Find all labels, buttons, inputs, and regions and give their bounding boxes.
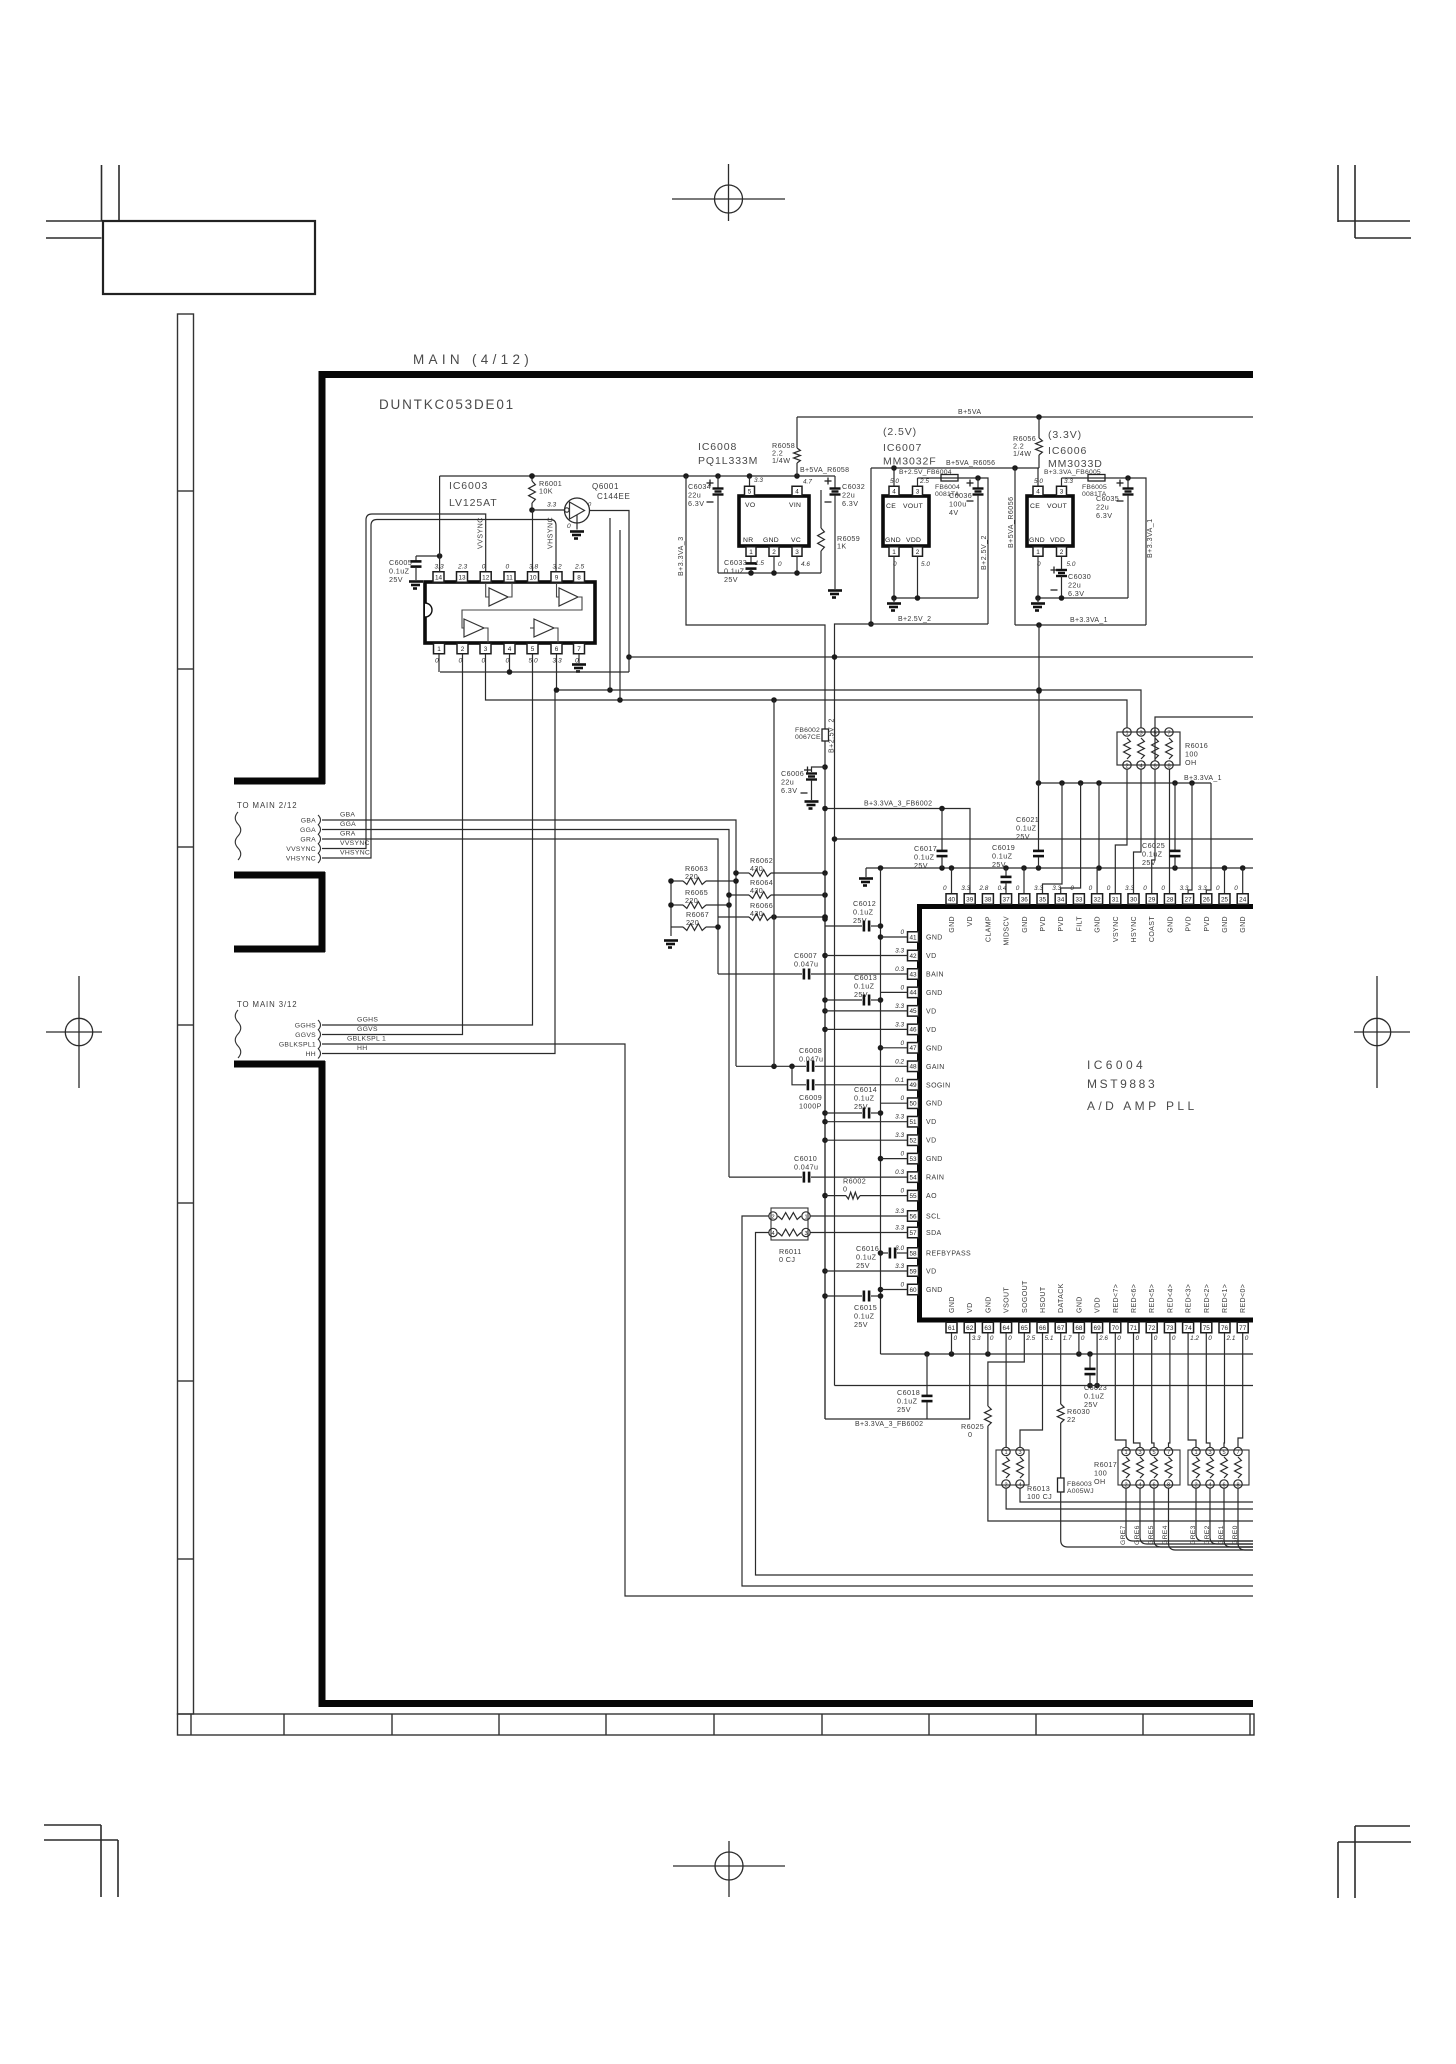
svg-text:430: 430 [750, 864, 763, 873]
wire RED<2> to network [1206, 1333, 1210, 1447]
svg-text:REFBYPASS: REFBYPASS [926, 1251, 971, 1258]
capacitor C6010 0.047u on RAIN [729, 1154, 908, 1183]
svg-text:7: 7 [1167, 731, 1170, 737]
svg-text:GBA: GBA [340, 812, 355, 819]
IC6004 pin 63 GND [982, 1296, 994, 1342]
svg-text:HH: HH [357, 1045, 367, 1052]
svg-text:GRA: GRA [340, 831, 356, 838]
resistor R6025 0 at SOGOUT [961, 1333, 1253, 1521]
IC6004 pin 46 VD [895, 1021, 936, 1034]
svg-text:GND: GND [1022, 916, 1029, 933]
IC6004 pin 66 HSOUT [1037, 1286, 1054, 1342]
IC6004 pin 38 CLAMP [978, 885, 993, 942]
wire GRE line to right edge [1154, 1488, 1253, 1547]
wire R6016 pin2 to VSYNC pin [1115, 769, 1127, 894]
svg-text:0: 0 [943, 885, 947, 892]
svg-text:A/D AMP PLL: A/D AMP PLL [1087, 1099, 1198, 1113]
IC6006 pin 4 [1033, 468, 1043, 496]
IC6004 pin 28 GND [1161, 885, 1175, 933]
wire VD supply bus (B+3.3VA_3_FB6002) [824, 873, 826, 1419]
IC6004 pin 75 RED<2> [1201, 1284, 1213, 1342]
svg-text:RAIN: RAIN [926, 1175, 944, 1182]
svg-text:8: 8 [577, 574, 581, 581]
wire RED<0> to network [1238, 1333, 1243, 1447]
IC6003 pin 12 [480, 564, 491, 583]
wire VHSYNC riser [322, 520, 556, 859]
svg-text:3: 3 [795, 549, 799, 556]
svg-text:GND: GND [763, 537, 779, 544]
svg-text:100 CJ: 100 CJ [1027, 1492, 1052, 1501]
svg-text:VSYNC: VSYNC [1113, 916, 1120, 942]
svg-text:VD: VD [926, 1138, 937, 1145]
wire RED<7> to network [1115, 1333, 1126, 1447]
svg-text:C144EE: C144EE [597, 492, 630, 501]
svg-text:0: 0 [1081, 1335, 1085, 1342]
IC6004 pin 45 VD [895, 1003, 936, 1016]
wire RED<3> to network [1188, 1333, 1196, 1447]
IC6004 pin 77 RED<0> [1237, 1284, 1249, 1342]
svg-text:66: 66 [1039, 1325, 1047, 1332]
svg-text:4: 4 [1138, 1483, 1141, 1489]
svg-text:9: 9 [555, 574, 559, 581]
svg-text:Q6001: Q6001 [592, 482, 619, 491]
svg-text:0: 0 [506, 564, 510, 571]
registration cross-circle right-middle [1354, 976, 1410, 1088]
resistor network R6011 0 CJ [769, 1208, 810, 1264]
svg-text:0: 0 [900, 929, 904, 936]
svg-text:BAIN: BAIN [926, 972, 944, 979]
svg-text:4.7: 4.7 [803, 479, 812, 486]
svg-text:39: 39 [966, 896, 974, 903]
svg-text:1: 1 [1124, 1450, 1127, 1456]
svg-text:1000P: 1000P [799, 1102, 822, 1111]
wire B+3.3VA_1 rail [1039, 782, 1212, 784]
IC6004 pin 53 GND [900, 1151, 942, 1164]
svg-text:IC6007: IC6007 [883, 442, 922, 454]
svg-text:B+3.3VA_1: B+3.3VA_1 [1184, 775, 1222, 782]
IC6007 pin 4 [889, 468, 899, 496]
wire RED<6> to network [1134, 1333, 1141, 1447]
IC6008 pin 2 [769, 547, 782, 573]
wire bottom B+2.5V_2 run [835, 1385, 1254, 1387]
svg-text:3.3: 3.3 [972, 1335, 981, 1342]
svg-text:0: 0 [1037, 561, 1041, 568]
svg-text:37: 37 [1003, 896, 1011, 903]
svg-text:4: 4 [1208, 1483, 1211, 1489]
svg-text:FILT: FILT [1076, 916, 1083, 932]
capacitor C6025 0.1uZ 25V [1142, 783, 1181, 868]
svg-text:GND: GND [949, 1296, 956, 1313]
wire VD pin stubs [825, 955, 908, 957]
svg-text:1/4W: 1/4W [1013, 449, 1031, 458]
svg-text:GND: GND [1222, 916, 1229, 933]
svg-text:28: 28 [1166, 896, 1174, 903]
svg-text:0 CJ: 0 CJ [779, 1255, 795, 1264]
svg-text:MIDSCV: MIDSCV [1004, 916, 1011, 946]
connector pin GBA [301, 815, 321, 825]
wire R6016 pin8 drop [1169, 769, 1171, 894]
wire RED<4> to network [1169, 1333, 1170, 1447]
IC6006 pin 2 [1057, 547, 1076, 569]
wire GRE line to right edge [1196, 1488, 1253, 1541]
svg-text:6.3V: 6.3V [781, 786, 797, 795]
svg-text:60: 60 [909, 1287, 917, 1294]
svg-text:B+3.3VA_1: B+3.3VA_1 [1070, 617, 1108, 624]
wire IC6008 ground bus [718, 572, 821, 574]
IC6004 pin 50 GND [900, 1095, 942, 1108]
IC6004 pin 49 SOGIN [895, 1077, 950, 1090]
svg-text:25V: 25V [897, 1405, 911, 1414]
wire GRE line to right edge [1238, 1488, 1253, 1550]
svg-text:31: 31 [1112, 896, 1120, 903]
svg-text:41: 41 [909, 934, 917, 941]
svg-text:CE: CE [886, 503, 896, 510]
IC6004 pin 60 GND [900, 1282, 942, 1295]
svg-text:B+5VA_R6058: B+5VA_R6058 [800, 467, 849, 474]
svg-text:OH: OH [1094, 1477, 1106, 1486]
svg-text:25V: 25V [854, 990, 868, 999]
capacitor C6023 0.1uZ 25V [1084, 1354, 1107, 1409]
wire HSOUT pin66 through R6013 to right edge [1020, 1333, 1043, 1447]
page corner registration mark top-right [1338, 165, 1411, 238]
svg-text:4: 4 [1139, 764, 1142, 770]
svg-text:VD: VD [967, 1302, 974, 1313]
svg-text:0: 0 [1070, 885, 1074, 892]
svg-text:44: 44 [909, 990, 917, 997]
wire R6016 pin1 feed [485, 699, 487, 701]
wire B+2.5V_2 bottom loop [870, 468, 872, 624]
svg-text:0: 0 [900, 1095, 904, 1102]
svg-text:13: 13 [458, 574, 466, 581]
svg-text:3.3: 3.3 [895, 1114, 904, 1121]
IC6004 pin 40 GND [943, 885, 957, 933]
svg-text:2.1: 2.1 [1226, 1335, 1236, 1342]
svg-text:OH: OH [1185, 758, 1197, 767]
svg-text:25V: 25V [854, 1320, 868, 1329]
wire GGA to column [322, 830, 729, 1178]
svg-text:B+2.5V_2: B+2.5V_2 [898, 616, 931, 623]
IC6003 pin 8 [574, 564, 585, 583]
svg-text:0.047u: 0.047u [794, 1163, 818, 1172]
connector pin GRA [300, 834, 320, 844]
svg-text:RED<0>: RED<0> [1240, 1284, 1247, 1313]
wire IC6003 pin6 to R6016 pin3 (B+3.3VA_1) [555, 690, 1141, 728]
svg-text:2: 2 [916, 549, 920, 556]
IC6004 pin 52 VD [895, 1132, 936, 1145]
svg-text:0: 0 [1089, 885, 1093, 892]
svg-text:PVD: PVD [1058, 916, 1065, 932]
svg-text:IC6003: IC6003 [449, 480, 488, 492]
svg-text:B+3.3VA_3: B+3.3VA_3 [678, 536, 685, 576]
IC IC6003 LV125AT quad buffer body [425, 480, 595, 643]
wire GGVS riser [322, 654, 463, 1035]
IC6004 pin 59 VD [895, 1263, 936, 1276]
svg-text:VD: VD [926, 1119, 937, 1126]
svg-text:GND: GND [926, 1045, 943, 1052]
resistor R6001 10K [529, 476, 563, 510]
IC6008 pin 5 [745, 476, 764, 496]
IC6004 pin 56 SCL [895, 1208, 941, 1221]
svg-text:GRE2: GRE2 [1204, 1525, 1211, 1545]
wire GRE line to right edge [1169, 1488, 1254, 1550]
svg-text:50: 50 [909, 1101, 917, 1108]
svg-text:0: 0 [1161, 885, 1165, 892]
IC IC6004 MST9883 A/D AMP PLL body [920, 907, 1254, 1321]
wire rail drop short [1098, 783, 1100, 868]
resistor R6058 2.2 1/4W [772, 417, 800, 476]
capacitor C6006 22u 6.3V [781, 767, 825, 809]
svg-text:0: 0 [1016, 885, 1020, 892]
IC6004 pin 67 DATACK [1055, 1283, 1072, 1342]
svg-text:GND: GND [1240, 916, 1247, 933]
svg-text:25V: 25V [856, 1261, 870, 1270]
svg-text:0: 0 [900, 1188, 904, 1195]
svg-text:IC6004: IC6004 [1087, 1058, 1146, 1072]
svg-text:4.6: 4.6 [801, 561, 810, 568]
svg-text:VVSYNC: VVSYNC [340, 840, 370, 847]
svg-text:26: 26 [1203, 896, 1211, 903]
svg-text:GGA: GGA [340, 821, 356, 828]
svg-text:3.3: 3.3 [1052, 885, 1061, 892]
resistor R6065 220 [671, 888, 729, 908]
svg-text:0: 0 [1245, 1335, 1249, 1342]
IC6004 pin 33 FILT [1070, 885, 1084, 931]
IC6007 pin 3 [913, 478, 930, 496]
svg-text:VHSYNC: VHSYNC [340, 850, 370, 857]
svg-text:RED<2>: RED<2> [1204, 1284, 1211, 1313]
IC6007 pin 1 [889, 547, 899, 598]
svg-text:GRE7: GRE7 [1120, 1525, 1127, 1545]
svg-text:CLAMP: CLAMP [985, 916, 992, 942]
svg-text:69: 69 [1094, 1325, 1102, 1332]
svg-text:1.2: 1.2 [1190, 1335, 1199, 1342]
svg-text:SOGOUT: SOGOUT [1022, 1280, 1029, 1313]
svg-text:3.3: 3.3 [1198, 885, 1207, 892]
svg-text:1: 1 [1125, 731, 1128, 737]
svg-text:2.8: 2.8 [978, 885, 988, 892]
svg-text:6.3V: 6.3V [1096, 511, 1112, 520]
wire R6011 pin4 to bottom run [756, 1233, 1254, 1576]
svg-text:40: 40 [948, 896, 956, 903]
svg-text:PVD: PVD [1040, 916, 1047, 932]
wire B+5VA top rail [797, 416, 1253, 418]
connector pin GGA [300, 825, 321, 835]
svg-text:GBA: GBA [301, 818, 316, 825]
IC6006 pin 3 [1057, 478, 1074, 496]
svg-text:0: 0 [1154, 1335, 1158, 1342]
svg-text:3.3: 3.3 [1180, 885, 1189, 892]
svg-text:2: 2 [772, 549, 776, 556]
svg-text:0: 0 [1172, 1335, 1176, 1342]
IC6003 pin 1 [434, 643, 445, 664]
capacitor C6018 0.1uZ 25V [897, 1354, 933, 1419]
svg-text:GRE5: GRE5 [1148, 1525, 1155, 1545]
svg-text:4: 4 [1018, 1483, 1021, 1489]
wire IC6003 pin3 to R6016 pin1 [486, 654, 1128, 728]
svg-text:VDD: VDD [1095, 1297, 1102, 1313]
svg-text:2: 2 [1124, 1483, 1127, 1489]
svg-text:0: 0 [900, 1282, 904, 1289]
svg-text:1: 1 [892, 549, 896, 556]
svg-text:3: 3 [1138, 1450, 1141, 1456]
svg-text:0: 0 [990, 1335, 994, 1342]
svg-text:DATACK: DATACK [1058, 1283, 1065, 1313]
svg-text:LV125AT: LV125AT [449, 497, 498, 509]
svg-text:3.0: 3.0 [895, 1245, 904, 1252]
svg-text:3: 3 [1208, 1450, 1211, 1456]
IC6003 pin 3 [480, 643, 491, 664]
wire VDD pin69 drop [1096, 1333, 1098, 1386]
capacitor C6015 0.1uZ 25V [825, 1291, 881, 1330]
resistor R6059 1K [818, 490, 861, 573]
svg-text:3: 3 [1018, 1450, 1021, 1456]
buffer gate A inside IC6003 [489, 588, 508, 606]
svg-text:2: 2 [1060, 549, 1064, 556]
svg-text:MST9883: MST9883 [1087, 1077, 1157, 1091]
capacitor C6030 22u 6.3V [1051, 567, 1092, 599]
registration cross-circle left-middle [46, 976, 102, 1088]
IC6006 pin 1 [1033, 547, 1043, 598]
svg-text:0: 0 [778, 561, 782, 568]
IC IC6008 PQ1L333M regulator [698, 441, 809, 546]
svg-text:3.3: 3.3 [895, 1021, 904, 1028]
wire GRE line to right edge [1224, 1488, 1253, 1547]
svg-text:71: 71 [1130, 1325, 1138, 1332]
svg-text:3.3: 3.3 [1125, 885, 1134, 892]
svg-text:7: 7 [577, 646, 581, 653]
svg-text:HSOUT: HSOUT [1040, 1286, 1047, 1313]
left film-strip column [178, 314, 194, 1714]
wire rail drop to PVD pin34 [1061, 783, 1081, 894]
svg-text:3.3: 3.3 [754, 477, 763, 484]
connector pin GBLKSPL1 [279, 1039, 321, 1049]
svg-text:VHSYNC: VHSYNC [286, 856, 316, 863]
wire IC6007 output/ground node [894, 597, 978, 599]
IC6004 pin 26 PVD [1198, 885, 1212, 932]
svg-text:7: 7 [1167, 1450, 1170, 1456]
svg-text:5.0: 5.0 [1067, 561, 1076, 568]
svg-text:0.047u: 0.047u [794, 960, 818, 969]
svg-text:4: 4 [1036, 488, 1040, 495]
svg-text:5.1: 5.1 [1045, 1335, 1054, 1342]
IC6004 pin 69 VDD [1092, 1297, 1109, 1342]
empty title box top-left [103, 221, 315, 294]
svg-text:VD: VD [926, 1008, 937, 1015]
svg-text:0.2: 0.2 [895, 1058, 904, 1065]
IC IC6007 MM3032F 2.5V regulator [883, 426, 937, 546]
IC6004 pin 48 GAIN [895, 1058, 945, 1071]
IC6004 pin 55 AO [900, 1188, 937, 1201]
svg-text:2.5: 2.5 [1025, 1335, 1035, 1342]
svg-text:5: 5 [1152, 1450, 1155, 1456]
wire VCC rail to IC6003 pin14 (B+5VA_R6058 net) [440, 475, 835, 477]
svg-text:45: 45 [909, 1008, 917, 1015]
svg-text:RED<6>: RED<6> [1131, 1284, 1138, 1313]
svg-text:55: 55 [909, 1193, 917, 1200]
wire GAIN feed column [773, 700, 775, 1066]
IC6004 pin 65 SOGOUT [1019, 1280, 1036, 1342]
svg-text:68: 68 [1075, 1325, 1083, 1332]
svg-text:RED<7>: RED<7> [1113, 1284, 1120, 1313]
svg-text:0.3: 0.3 [895, 966, 904, 973]
svg-text:IC6008: IC6008 [698, 441, 737, 453]
capacitor C6012 0.1uZ 25V [825, 899, 881, 932]
svg-text:62: 62 [966, 1325, 974, 1332]
svg-text:MM3032F: MM3032F [883, 456, 937, 468]
svg-text:5: 5 [748, 488, 752, 495]
wire GND bus column [880, 868, 882, 1354]
svg-text:58: 58 [909, 1250, 917, 1257]
svg-text:VD: VD [967, 916, 974, 927]
ground at IC6003 pin 7 [578, 654, 580, 663]
capacitor C6013 0.1uZ 25V [825, 973, 881, 1006]
IC6004 pin 72 RED<5> [1146, 1284, 1158, 1342]
svg-text:34: 34 [1057, 896, 1065, 903]
svg-text:61: 61 [948, 1325, 956, 1332]
capacitor C6021 0.1uZ 25V [1016, 783, 1044, 868]
svg-text:HH: HH [306, 1051, 316, 1058]
svg-text:2.5: 2.5 [919, 478, 929, 485]
wire IC6003 pin1/pin4 bus [440, 671, 629, 673]
svg-text:PVD: PVD [1204, 916, 1211, 932]
svg-text:B+3.3VA_1: B+3.3VA_1 [1147, 518, 1154, 558]
svg-text:0: 0 [1208, 1335, 1212, 1342]
IC6004 pin 76 RED<1> [1219, 1284, 1236, 1342]
page corner registration mark top-left [46, 165, 119, 238]
IC6004 pin 64 VSOUT [1001, 1287, 1013, 1342]
resistor R6067 220 [671, 910, 718, 930]
svg-text:5: 5 [531, 646, 535, 653]
wire long net from Q6001 collector node [629, 656, 1253, 658]
connector pin GGVS [295, 1030, 320, 1040]
svg-text:VIN: VIN [789, 502, 801, 509]
svg-text:B+2.5V_2: B+2.5V_2 [981, 535, 988, 570]
svg-text:38: 38 [984, 896, 992, 903]
svg-text:0: 0 [893, 561, 897, 568]
registration cross-circle top-center [672, 164, 785, 221]
svg-text:VD: VD [926, 1027, 937, 1034]
connector pin VHSYNC [286, 853, 321, 863]
svg-text:R6025: R6025 [961, 1422, 984, 1431]
buffer gate B inside IC6003 [559, 588, 578, 606]
svg-text:5.0: 5.0 [921, 561, 930, 568]
svg-text:1: 1 [749, 549, 753, 556]
IC6004 pin 57 SDA [895, 1225, 941, 1238]
wire GBLKSPL1 riser and bottom run [322, 1044, 1253, 1596]
IC6003 pin 14 [433, 564, 444, 583]
svg-text:GBLKSPL1: GBLKSPL1 [279, 1042, 316, 1049]
svg-text:3.3: 3.3 [895, 1132, 904, 1139]
ground at IC6007 pin1 [893, 598, 895, 602]
wire rail drop to PVD pin26 [1206, 783, 1211, 894]
IC6004 pin 47 GND [900, 1040, 942, 1053]
IC6004 pin 62 VD [964, 1302, 981, 1342]
IC6003 pin 6 [551, 643, 562, 664]
svg-text:HSYNC: HSYNC [1131, 916, 1138, 943]
svg-text:12: 12 [482, 574, 490, 581]
IC6004 pin 39 VD [961, 885, 975, 927]
IC6004 pin 30 HSYNC [1125, 885, 1139, 943]
wire HH riser [322, 690, 555, 1054]
IC6004 pin 24 GND [1234, 885, 1248, 933]
IC6004 pin 70 RED<7> [1110, 1284, 1122, 1342]
svg-text:GAIN: GAIN [926, 1064, 945, 1071]
svg-text:5.0: 5.0 [529, 658, 538, 665]
capacitor C6033 0.1uZ 25V [724, 558, 757, 584]
svg-text:7: 7 [1236, 1450, 1239, 1456]
svg-text:25V: 25V [854, 1102, 868, 1111]
svg-text:PVD: PVD [1186, 916, 1193, 932]
